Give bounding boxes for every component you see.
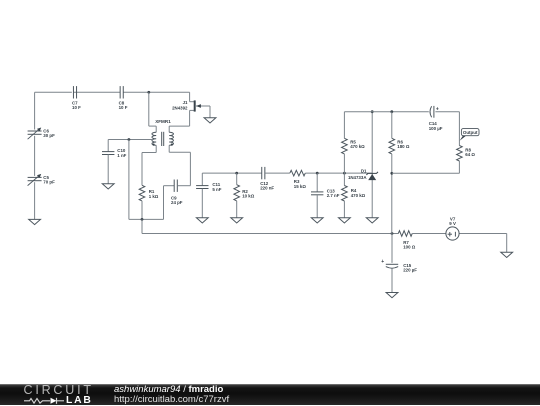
svg-text:100 µF: 100 µF: [429, 126, 443, 131]
svg-text:24 pF: 24 pF: [171, 200, 183, 205]
svg-text:+: +: [436, 106, 439, 112]
svg-text:XFMR1: XFMR1: [155, 119, 171, 124]
svg-text:9 V: 9 V: [449, 221, 456, 226]
svg-text:+: +: [381, 259, 384, 265]
svg-text:30 pF: 30 pF: [43, 133, 55, 138]
svg-text:10 kΩ: 10 kΩ: [242, 194, 255, 199]
svg-text:Output: Output: [463, 130, 478, 135]
svg-text:470 kΩ: 470 kΩ: [350, 144, 365, 149]
svg-text:1N4733A: 1N4733A: [348, 175, 367, 180]
svg-text:100 Ω: 100 Ω: [403, 245, 416, 250]
svg-text:2.7 nF: 2.7 nF: [327, 193, 340, 198]
svg-text:D1: D1: [361, 168, 367, 173]
svg-text:180 Ω: 180 Ω: [397, 144, 410, 149]
svg-text:1 nF: 1 nF: [117, 153, 126, 158]
svg-text:470 kΩ: 470 kΩ: [351, 193, 366, 198]
svg-text:220 µF: 220 µF: [403, 268, 417, 273]
svg-text:1 kΩ: 1 kΩ: [149, 194, 159, 199]
svg-text:J1: J1: [183, 100, 188, 105]
svg-text:220 nF: 220 nF: [260, 186, 274, 191]
svg-text:70 pF: 70 pF: [43, 180, 55, 185]
svg-text:15 kΩ: 15 kΩ: [294, 184, 307, 189]
svg-text:64 Ω: 64 Ω: [465, 152, 475, 157]
svg-text:5 nF: 5 nF: [212, 187, 221, 192]
svg-text:10 F: 10 F: [72, 105, 81, 110]
svg-text:2N4392: 2N4392: [172, 105, 188, 110]
svg-text:10 F: 10 F: [119, 105, 128, 110]
